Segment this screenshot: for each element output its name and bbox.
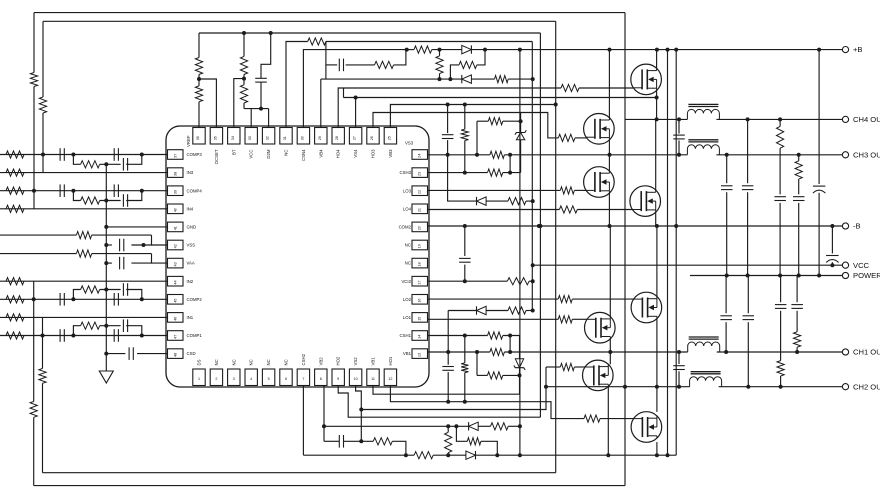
svg-text:+B: +B [853,45,863,54]
svg-text:37: 37 [174,154,178,158]
wire IN4 row [0,208,168,210]
node VS4 stub junction [354,96,358,100]
capacitor zobel CH3 RC [793,196,805,198]
node VS2 at CH2 jog [359,408,363,412]
IC pin 1 (DS) box [193,369,205,386]
svg-text:COMP2: COMP2 [187,297,203,302]
resistor feedback CH2 (left outer bottom) [30,402,37,418]
svg-text:VB1: VB1 [403,351,412,356]
wire -B line [428,225,843,227]
wire COMP2 row [0,298,168,300]
wire VCC pin drop [250,109,252,128]
wire CSD pin to bus [106,353,125,355]
wire COMP3 feedback branch [73,155,80,165]
svg-text:24: 24 [418,154,422,158]
node CH2 start [544,385,548,389]
capacitor bulk +B (electrolytic) [813,185,826,187]
node CH3 at interphase cap [677,153,681,157]
node CH3 at rail x609 [608,153,612,157]
node CH1 at rail x609 [608,350,612,354]
svg-text:3: 3 [233,377,235,381]
wire COMP3 row [0,154,168,156]
inductor CH4 output [687,109,719,119]
wire CSH2 line [302,386,304,456]
node bottom row at rail x609 [606,453,610,457]
capacitor COMP2 series 1 [59,293,61,306]
node CH2 at Q5 source [655,385,659,389]
node row3 branch [448,77,452,81]
terminal CH1 OUT [842,349,848,355]
wire LO2 row [428,298,559,300]
svg-text:43: 43 [174,262,178,266]
node CH1 at R2 leg [508,350,512,354]
IC pin 45 (COMP2) box [168,295,184,305]
capacitor COMP1 series 1 [59,329,61,342]
svg-text:27: 27 [353,136,357,140]
capacitor CSD [128,347,130,360]
wire zobel CH1 cap [725,276,727,314]
node CH3 at R2 leg [508,153,512,157]
svg-text:COMP1: COMP1 [187,333,203,338]
wire Q2 drain to +B [608,50,610,118]
svg-text:VB3: VB3 [388,149,393,158]
svg-text:16: 16 [418,299,422,303]
IC pin 29 (VB4) box [315,128,327,145]
node COMP2 A [71,297,75,301]
svg-text:45: 45 [174,299,178,303]
wire +B row [406,49,414,51]
svg-text:46: 46 [174,317,178,321]
svg-text:29: 29 [318,136,322,140]
node CH4 at interphase cap [677,117,681,121]
resistor bootstrap vertical [436,56,443,74]
transistor Q8 (CH2 lower) [631,412,662,443]
IC pin 18 (NC) box [412,258,428,268]
IC pin 14 (CSH1) box [412,331,428,341]
wire branch to +B row [477,50,485,65]
wire COMP1 feedback branch [73,326,80,336]
node CH4 at zobel1 [746,117,750,121]
transistor Q2 (CH3 high side) [584,114,615,145]
IC pin 43 (VAA) box [168,258,184,268]
IC pin 24 (VS3) box [412,150,428,160]
diode +B row [462,45,472,53]
terminal CH4 OUT [842,116,848,122]
node COMP4 on analog bus [104,199,108,203]
wire cap -B to VCC [831,226,833,253]
node VS4 at Q1 source [655,96,659,100]
wire inner rise to IN1 row [42,317,44,368]
resistor VCI2 [507,278,529,285]
wire GND pin to bus [106,226,167,228]
wire x447 to diode row [448,155,477,201]
svg-text:1: 1 [198,377,200,381]
wire diode row bottom [448,310,476,312]
resistor VCC divider upper [240,56,247,74]
node VCC cap at jog [259,107,263,111]
node COMP2 on analog bus [104,288,108,292]
IC pin 31 (NC) box [280,128,292,145]
node HO3 line at cap [446,103,450,107]
svg-text:4: 4 [250,377,252,381]
resistor CSH3 R1 [488,118,503,125]
svg-text:VCI2: VCI2 [401,279,411,284]
node COMP3 A [71,153,75,157]
resistor feedback CH4 (left outer) [30,73,37,87]
wire bootstrap cap x447 upper [447,105,449,134]
node VCC divider tap [242,77,246,81]
node CH3 at zobel1 [725,153,729,157]
node x448 at HO1 line [446,400,450,404]
capacitor COMP3 feedback [122,158,124,171]
svg-text:36: 36 [196,136,200,140]
diode bottom source row [466,451,476,459]
wire CH4 switch-node drop (right) [624,13,626,486]
resistor feedback CH3 (left inner) [39,97,46,113]
wire HO3 line [390,105,555,128]
IC pin 23 (CSH3) box [412,168,428,178]
ground [99,371,113,383]
svg-text:VREF: VREF [186,135,191,147]
wire Q6 source to Q7 drain [609,339,611,365]
node VSS on bus [104,243,108,247]
svg-text:33: 33 [248,136,252,140]
svg-text:HO1: HO1 [388,356,393,365]
wire zobel CH3 cap [726,155,728,183]
wire OCSET branch [199,79,216,128]
node drive-rail at bootstrap line [554,103,558,107]
resistor gate Q4 [559,206,577,213]
svg-text:CSN4: CSN4 [301,149,306,161]
node VREF divider tap [197,77,201,81]
resistor gate Q5 [558,296,572,303]
node PGND 3 [778,274,782,278]
node -B at x538 [537,224,541,228]
wire Q8 source to bottom row [656,442,658,455]
wire CSH1 zener leads [519,336,521,359]
wire VSS jog down [152,235,168,245]
wire bottom row 426 [324,425,469,427]
transistor Q6 (CH1 upper) [585,312,616,343]
svg-text:CH3 OUT: CH3 OUT [853,150,880,159]
wire CSH3 R1 row [477,120,488,122]
resistor input IN4 [6,205,24,212]
resistor input COMP4 [6,187,24,194]
svg-text:12: 12 [388,377,392,381]
resistor CSH1 R3 [487,372,502,379]
resistor bootstrap row441 [373,438,392,445]
node -B at rail x676 [674,224,678,228]
wire zobel CH4 cap [747,119,749,183]
wire IN1 row [0,316,168,318]
node bottom row at row441 drop [404,453,408,457]
wire row3 branch up [450,65,459,79]
node VCC at cap832 [830,263,834,267]
node +B row x656 [655,48,659,52]
resistor bootstrap row3 [495,76,509,83]
wire zobel CH1 RC [796,276,798,303]
resistor bottom source row [414,452,433,459]
resistor input IN3 [6,169,24,176]
node CH2 at interphase cap [677,385,681,389]
svg-text:39: 39 [174,190,178,194]
wire HO1 line [390,386,584,419]
wire x448 drop [447,311,449,353]
node x532 at diode row top [531,199,535,203]
wire COMP1 row [0,335,168,337]
node bottom row branch [495,453,499,457]
node CSH1 R2 leg top [508,334,512,338]
svg-text:47: 47 [174,335,178,339]
svg-text:COMP3: COMP3 [187,152,203,157]
resistor CH1 line [490,348,505,355]
svg-text:VCC: VCC [853,261,870,270]
svg-text:NC: NC [249,359,254,365]
wire VSS row to bus [106,244,112,246]
svg-text:22: 22 [418,190,422,194]
wire bootstrap row3 [321,78,462,80]
svg-text:COM2: COM2 [399,225,412,230]
wire LO3 row [428,189,561,191]
svg-text:25: 25 [387,136,391,140]
svg-text:CSH1: CSH1 [400,333,412,338]
inductor CH3 output [687,145,719,155]
svg-text:10: 10 [354,377,358,381]
wire zobel CH3 RC [798,155,800,161]
wire BT branch [234,79,244,128]
resistor diode row bottom [508,307,526,314]
IC pin 15 (LO1) box [412,313,428,323]
wire CSH1 R2 leg [509,336,511,353]
wire top inner left drop [42,21,44,97]
IC pin 21 (LO4) box [412,204,428,214]
capacitor VCC decouple [255,77,267,79]
svg-text:POWER GND: POWER GND [853,271,880,280]
IC pin 33 (VCC) box [245,128,257,145]
resistor input IN2 [6,278,24,285]
node CH1 at interphase cap [677,350,681,354]
transistor Q1 (CH4 high side) [631,64,662,95]
wire zener branch [520,113,522,122]
svg-text:17: 17 [418,280,422,284]
svg-text:VB1: VB1 [371,357,376,366]
resistor CSH1 R1 [488,332,503,339]
wire LO1 row [428,318,559,320]
capacitor zobel CH1 RC [791,304,803,306]
svg-text:CH2 OUT: CH2 OUT [853,382,880,391]
svg-text:CSH3: CSH3 [400,170,412,175]
wire Q5 source to CH2 [656,319,658,387]
IC pin 19 (NC) box [412,240,428,250]
wire VCI2 cap drop [464,226,466,256]
resistor row3 branch [459,61,477,68]
node +B row d2 [483,48,487,52]
diode bottom row 426 [469,422,479,430]
resistor VCC divider lower [240,85,247,103]
svg-text:OCSET: OCSET [214,149,219,164]
node x540 at -B line [538,224,542,228]
node rail x520 at row 426 [518,424,522,428]
svg-text:21: 21 [418,208,422,212]
capacitor COMP3 series 2 [113,148,115,161]
svg-text:NC: NC [405,261,411,266]
resistor VREF divider lower [195,86,202,102]
node VB2 at row426 [322,424,326,428]
capacitor zobel CH3 [721,185,733,187]
node COMP2 B [140,297,144,301]
svg-text:15: 15 [418,317,422,321]
svg-text:D2M: D2M [266,149,271,158]
node COMP3 B [140,153,144,157]
svg-text:19: 19 [418,244,422,248]
svg-text:31: 31 [283,136,287,140]
wire CH4 line [625,118,687,120]
capacitor zobel CH2 RC [775,304,787,306]
wire row441 to bottom row [392,441,406,455]
resistor COMP3 feedback [81,161,100,168]
node -B at cap464 [463,224,467,228]
transistor Q4 (CH4 low side) [630,186,661,217]
resistor zobel CH4 [777,126,784,148]
node PGND 5 [817,274,821,278]
svg-text:CSH2: CSH2 [301,353,306,365]
capacitor COMP2 series 2 [113,293,115,306]
wire branch to bottom row [481,441,497,455]
wire VSS external line [0,234,76,236]
wire row2 to +B row [394,50,406,65]
node CSH1 res at row [463,334,467,338]
IC pin 11 (VB1) box [367,369,379,386]
op-amp U1 IC body (QFP-48 class-D driver) [166,126,429,387]
node CSD on bus [104,352,108,356]
wire bottom outer left rise [33,417,35,485]
wire rail x667 [667,50,669,456]
IC pin 5 (NC) box [262,369,274,386]
IC pin 27 (VS4) box [349,128,361,145]
node COMP4 B [140,189,144,193]
node +B row d1 [438,48,442,52]
node CH1 at zobel2 [795,350,799,354]
wire VCC divider [243,33,245,56]
IC pin 16 (LO2) box [412,295,428,305]
resistor COMP2 feedback [81,286,100,293]
resistor input COMP2 [6,296,24,303]
IC pin 20 (COM2) box [412,222,428,232]
svg-text:BT: BT [231,149,236,155]
wire VREF divider [198,33,200,58]
svg-text:9: 9 [337,377,339,381]
node row3 end x532 [531,77,535,81]
wire VS4 line [355,98,357,128]
IC pin 41 (GND) box [168,222,184,232]
svg-text:35: 35 [213,136,217,140]
svg-text:VSS: VSS [187,243,196,248]
zener CSH1 [515,359,523,368]
node outer rise at COMP2 [32,297,36,301]
wire Q5 drain to -B [656,226,658,296]
IC pin 47 (COMP1) box [168,331,184,341]
resistor CSH1 sense vertical [461,363,468,373]
IC pin 17 (VCI2) box [412,276,428,286]
wire VAA row to bus [106,262,112,264]
wire bottom inner feedback line [43,472,556,474]
wire CH3 line (VS3 to filter) [428,154,490,156]
wire Q1 source to CH4 [656,91,658,120]
node VREF line at cap drop [269,31,273,35]
capacitor COMP1 feedback [122,319,124,332]
svg-text:28: 28 [335,136,339,140]
IC pin 44 (IN2) box [168,276,184,286]
wire zobel CH2 RC [780,276,782,303]
wire bootstrap drop [325,42,327,80]
capacitor zobel CH1 [720,315,732,317]
IC pin 42 (VSS) box [168,240,184,250]
resistor CSH3 R3 [488,169,503,176]
diode clamp bottom [477,306,487,314]
terminal +B [842,47,848,53]
wire HO4 line [338,88,561,128]
wire M7 gate feed [546,366,560,368]
node rail x520 at bottom row [518,453,522,457]
node x532 at VCI2 [531,279,535,283]
svg-text:LO2: LO2 [403,297,412,302]
svg-text:32: 32 [266,136,270,140]
svg-text:VCC: VCC [249,150,254,159]
node x448 at CH1 [446,350,450,354]
resistor COMP4 feedback [81,197,100,204]
node CH4 at Q1 source [655,117,659,121]
node -B at rail x609 [608,224,612,228]
wire CH2 jog [361,367,546,410]
capacitor VAA decouple [119,257,121,270]
wire Q3 source to -B [608,193,610,226]
wire Q4 drain to CH4 [655,119,657,190]
wire VREF top line [199,32,540,34]
resistor feedback CH1 (left inner bottom) [39,369,46,384]
IC pin 34 (BT) box [228,128,240,145]
wire VAA external line [0,253,76,255]
wire rail x520 [519,50,521,456]
node +B row x819 [817,48,821,52]
transistor Q5 (CH2 upper) [631,292,662,323]
resistor gate Q3 [560,187,574,194]
wire row426 branch down [456,426,467,441]
capacitor VCI2 [459,257,471,259]
node +B row x667 [666,48,670,52]
node COMP1 on analog bus [104,324,108,328]
wire bootstrap row2 [326,64,337,66]
svg-text:5: 5 [268,377,270,381]
diode bootstrap row3 [462,75,472,83]
node x532 at diode row bottom [531,309,535,313]
resistor zobel CH1 [794,332,801,347]
wire analog ground bus [105,164,107,371]
resistor input COMP3 [6,151,24,158]
IC pin 3 (NC) box [228,369,240,386]
node CH2 at zobel2 [779,385,783,389]
capacitor COMP4 series 2 [113,184,115,197]
wire bottom source row [303,454,414,456]
wire rail x532 [531,42,533,311]
node HO3 line at res [463,103,467,107]
wire zobel CH4 RC [779,119,781,126]
node bottom outer at CH2 line [623,385,627,389]
svg-text:34: 34 [231,136,235,140]
wire CSH1 left leg [476,352,478,375]
wire VCC rail branch [532,264,534,266]
svg-text:-B: -B [853,222,861,231]
node COMP1 A [71,334,75,338]
